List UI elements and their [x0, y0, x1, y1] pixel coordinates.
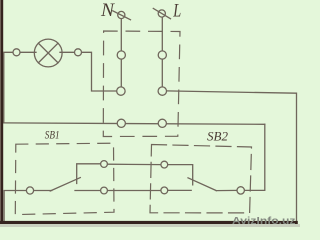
wire: top traveler SB1 to SB2 [107, 163, 160, 165]
wire: bottom traveler open stub at SB1 [75, 190, 101, 192]
wire: lamp to right terminal [60, 51, 75, 53]
junction node L-out [158, 87, 166, 95]
wire: bottom run to SB1 common [4, 191, 26, 222]
wire: bottom traveler SB1 to SB2 [107, 190, 160, 192]
SB2 top contact terminal [161, 161, 168, 168]
dark bottom page line [0, 221, 298, 224]
wire: long horizontal lamp return line [4, 123, 265, 124]
junction terminal on return line right [158, 119, 166, 127]
SB1 top contact terminal [101, 161, 108, 168]
terminal L with slash [153, 8, 170, 18]
terminal circle lamp-right [75, 49, 82, 56]
svg-text:SB2: SB2 [207, 129, 228, 144]
svg-text:L: L [173, 1, 182, 22]
wire: SB2 common stub [216, 189, 237, 191]
junction box clamp circle L upper [158, 51, 166, 59]
wire: N inside junction box [120, 59, 122, 87]
SB2 bottom contact terminal [161, 187, 168, 194]
wire: SB2 top contact drop [168, 165, 193, 185]
wire: L to right edge and down [167, 91, 297, 222]
terminal circle lamp-left [13, 49, 20, 56]
switch box SB2 (dashed) [150, 145, 252, 213]
switch blade SB2 [188, 178, 216, 191]
wire: SB2 bottom open stub [168, 189, 192, 191]
lamp EL [34, 39, 62, 67]
junction box (dashed) [103, 31, 180, 137]
wire: lamp left to border down to junction [4, 52, 13, 123]
svg-text:AvizInfo.uz: AvizInfo.uz [232, 216, 296, 227]
dark left page border [0, 0, 3, 227]
bottom edge shadow strip [0, 224, 300, 227]
wire: L feed [161, 17, 163, 51]
switch box SB1 (dashed) [15, 143, 114, 214]
SB1 common terminal [26, 187, 33, 194]
wire: N feed [120, 19, 122, 52]
wire: lamp to left terminal [20, 51, 36, 53]
SB1 bottom contact terminal [101, 187, 108, 194]
junction box clamp circle N upper [117, 51, 125, 59]
SB2 common terminal [237, 187, 244, 194]
wire: right drop to SB2 common [244, 124, 264, 190]
wire: SB1 common stub [34, 190, 52, 192]
switch blade SB1 [50, 178, 80, 191]
junction terminal on return line left [117, 119, 125, 127]
wire: SB1 top contact drop [77, 164, 101, 184]
terminal N with slash [113, 11, 131, 20]
wire: L inside junction box [161, 59, 163, 87]
svg-text:SB1: SB1 [45, 128, 60, 142]
junction node lamp-N [117, 87, 125, 95]
svg-text:N: N [100, 1, 116, 21]
wire: lamp right terminal to junction circle [82, 52, 117, 91]
